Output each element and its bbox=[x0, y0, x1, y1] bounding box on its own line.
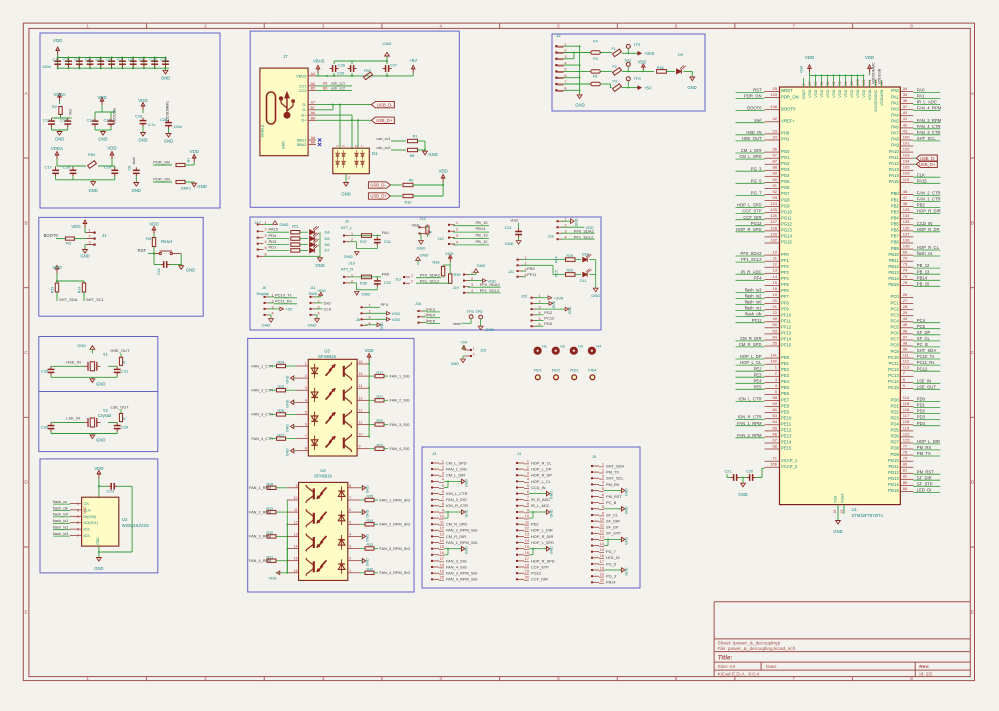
svg-text:PF1_SCL2: PF1_SCL2 bbox=[741, 257, 762, 262]
svg-text:PM_RST: PM_RST bbox=[917, 469, 934, 474]
svg-text:SHT_SDA: SHT_SDA bbox=[59, 297, 78, 302]
svg-text:PC12: PC12 bbox=[544, 316, 555, 321]
svg-text:F1: F1 bbox=[612, 47, 616, 51]
svg-text:PF9: PF9 bbox=[781, 306, 789, 311]
svg-text:DNF1: DNF1 bbox=[181, 186, 192, 191]
svg-text:C20: C20 bbox=[746, 470, 753, 474]
svg-text:LED_DI: LED_DI bbox=[917, 488, 932, 493]
svg-text:PD14: PD14 bbox=[888, 482, 899, 487]
svg-text:LSE_OUT: LSE_OUT bbox=[917, 384, 937, 389]
svg-text:FAN_3_RPM_SIG: FAN_3_RPM_SIG bbox=[446, 571, 478, 576]
svg-text:11: 11 bbox=[600, 524, 604, 528]
svg-text:RST: RST bbox=[753, 88, 762, 93]
svg-text:C29: C29 bbox=[121, 425, 129, 430]
svg-text:C11: C11 bbox=[160, 57, 168, 62]
svg-text:VDD: VDD bbox=[855, 89, 860, 97]
svg-text:C17: C17 bbox=[45, 165, 53, 170]
svg-text:J21: J21 bbox=[508, 270, 514, 274]
svg-text:123: 123 bbox=[903, 437, 910, 442]
svg-text:7: 7 bbox=[602, 499, 604, 503]
svg-text:10: 10 bbox=[294, 496, 298, 500]
svg-text:PG8: PG8 bbox=[781, 197, 790, 202]
svg-text:HOP_L_CL: HOP_L_CL bbox=[531, 479, 552, 484]
svg-text:ION_R_CTR: ION_R_CTR bbox=[738, 415, 762, 420]
svg-text:20: 20 bbox=[600, 579, 604, 583]
svg-text:PF0: PF0 bbox=[781, 252, 789, 257]
svg-text:100: 100 bbox=[903, 134, 910, 139]
svg-text:FAN_3_SIG: FAN_3_SIG bbox=[390, 423, 410, 427]
svg-text:CM_L_DIR: CM_L_DIR bbox=[741, 148, 762, 153]
svg-text:142: 142 bbox=[770, 359, 777, 364]
svg-text:43: 43 bbox=[903, 128, 908, 133]
svg-text:FAN_2_RPM: FAN_2_RPM bbox=[737, 433, 762, 438]
svg-text:HOP_L_SPD: HOP_L_SPD bbox=[531, 540, 554, 545]
svg-text:W25Q16JVSS: W25Q16JVSS bbox=[122, 523, 149, 528]
svg-text:PA15: PA15 bbox=[917, 178, 928, 183]
svg-text:+5V: +5V bbox=[644, 85, 652, 90]
svg-text:PB8: PB8 bbox=[891, 240, 900, 245]
svg-text:16: 16 bbox=[600, 554, 604, 558]
svg-text:R17: R17 bbox=[377, 371, 384, 375]
svg-text:17: 17 bbox=[525, 557, 529, 561]
svg-text:118: 118 bbox=[903, 419, 910, 424]
svg-text:75: 75 bbox=[903, 274, 908, 279]
svg-text:PF7: PF7 bbox=[781, 294, 789, 299]
svg-text:GND: GND bbox=[365, 509, 369, 517]
svg-text:C9: C9 bbox=[139, 57, 145, 62]
svg-text:PF4: PF4 bbox=[754, 275, 762, 280]
svg-text:USB_D-: USB_D- bbox=[377, 102, 393, 107]
svg-text:GND: GND bbox=[428, 152, 437, 157]
svg-text:VDDSDMMC: VDDSDMMC bbox=[871, 62, 875, 84]
svg-text:PC7: PC7 bbox=[891, 337, 900, 342]
svg-text:PA1: PA1 bbox=[891, 94, 899, 99]
svg-text:4: 4 bbox=[271, 311, 273, 315]
svg-text:R38: R38 bbox=[433, 260, 440, 264]
svg-text:A5: A5 bbox=[323, 82, 327, 86]
svg-text:PB10: PB10 bbox=[888, 252, 899, 257]
svg-text:14: 14 bbox=[525, 539, 529, 543]
svg-text:64: 64 bbox=[773, 419, 778, 424]
svg-text:HOP_R_DIR: HOP_R_DIR bbox=[531, 534, 553, 539]
svg-text:50: 50 bbox=[773, 322, 778, 327]
svg-text:DIO: DIO bbox=[324, 300, 331, 305]
svg-text:117: 117 bbox=[903, 413, 910, 418]
svg-text:99: 99 bbox=[903, 347, 908, 352]
svg-text:6: 6 bbox=[305, 423, 307, 427]
svg-text:121: 121 bbox=[862, 79, 866, 85]
svg-text:C16: C16 bbox=[135, 114, 143, 119]
svg-text:15: 15 bbox=[294, 557, 298, 561]
svg-text:B5: B5 bbox=[311, 87, 315, 91]
svg-text:FB1: FB1 bbox=[88, 152, 96, 157]
svg-text:5: 5 bbox=[349, 520, 351, 524]
svg-text:SF_STP: SF_STP bbox=[917, 481, 933, 486]
svg-text:34: 34 bbox=[903, 86, 908, 91]
svg-text:PG_5: PG_5 bbox=[606, 561, 616, 566]
svg-text:PG4: PG4 bbox=[781, 173, 790, 178]
svg-text:CLK: CLK bbox=[917, 172, 925, 177]
svg-text:J20: J20 bbox=[521, 295, 527, 299]
svg-text:PA2: PA2 bbox=[891, 100, 899, 105]
svg-text:C8: C8 bbox=[128, 57, 134, 62]
svg-text:PM_RX: PM_RX bbox=[606, 482, 620, 487]
svg-text:3: 3 bbox=[456, 234, 458, 238]
svg-text:PF1_SCL2: PF1_SCL2 bbox=[574, 234, 594, 239]
svg-text:GND: GND bbox=[89, 188, 98, 193]
svg-text:PC6: PC6 bbox=[891, 331, 900, 336]
svg-text:39: 39 bbox=[820, 81, 824, 85]
svg-text:7: 7 bbox=[361, 145, 365, 147]
svg-text:GND: GND bbox=[383, 41, 392, 46]
svg-text:GND: GND bbox=[282, 141, 286, 149]
svg-text:PF8: PF8 bbox=[781, 300, 789, 305]
svg-text:C13: C13 bbox=[60, 118, 68, 123]
svg-text:15: 15 bbox=[600, 548, 604, 552]
svg-text:11: 11 bbox=[359, 421, 363, 425]
svg-text:C1: C1 bbox=[52, 57, 58, 62]
svg-text:PC12: PC12 bbox=[888, 367, 899, 372]
svg-text:5: 5 bbox=[557, 23, 560, 28]
svg-text:A4: A4 bbox=[311, 72, 315, 76]
svg-text:C6: C6 bbox=[106, 57, 112, 62]
svg-text:U2: U2 bbox=[122, 517, 128, 522]
svg-text:J10: J10 bbox=[349, 261, 356, 266]
svg-text:CLK: CLK bbox=[324, 306, 332, 311]
svg-text:3: 3 bbox=[349, 545, 351, 549]
svg-text:CCF_DIR: CCF_DIR bbox=[743, 215, 761, 220]
svg-text:5: 5 bbox=[602, 487, 604, 491]
svg-text:C10: C10 bbox=[149, 57, 157, 62]
svg-text:GND: GND bbox=[550, 509, 554, 517]
svg-text:USB_D-: USB_D- bbox=[920, 156, 936, 161]
svg-text:1: 1 bbox=[527, 459, 529, 463]
svg-text:HSE_OUT: HSE_OUT bbox=[742, 136, 762, 141]
svg-text:VDD: VDD bbox=[138, 98, 147, 103]
svg-text:FAN_1_RPM_SIG: FAN_1_RPM_SIG bbox=[446, 540, 478, 545]
svg-text:HSE_OUT: HSE_OUT bbox=[111, 348, 130, 353]
svg-text:GND: GND bbox=[625, 567, 629, 575]
svg-text:PA15: PA15 bbox=[269, 226, 279, 231]
svg-text:Vref: Vref bbox=[754, 118, 762, 123]
svg-text:16: 16 bbox=[440, 551, 444, 555]
svg-text:PD10: PD10 bbox=[888, 458, 899, 463]
svg-text:GND: GND bbox=[164, 139, 173, 144]
svg-text:PB13: PB13 bbox=[888, 270, 899, 275]
svg-text:52: 52 bbox=[826, 81, 830, 85]
svg-text:VDD: VDD bbox=[190, 149, 199, 154]
svg-text:40: 40 bbox=[903, 110, 908, 115]
svg-text:PC9: PC9 bbox=[891, 349, 900, 354]
svg-text:VDD: VDD bbox=[861, 89, 866, 97]
svg-text:106: 106 bbox=[770, 462, 777, 467]
svg-text:VDDA: VDDA bbox=[51, 146, 63, 151]
svg-text:PA9: PA9 bbox=[891, 143, 899, 148]
svg-text:B8: B8 bbox=[311, 141, 315, 145]
svg-text:2: 2 bbox=[473, 352, 475, 356]
svg-text:F3: F3 bbox=[613, 80, 617, 84]
svg-text:PG6: PG6 bbox=[781, 185, 790, 190]
svg-text:8: 8 bbox=[442, 502, 444, 506]
svg-text:GND: GND bbox=[568, 306, 572, 314]
svg-text:ION_L_CTR: ION_L_CTR bbox=[446, 491, 468, 496]
svg-text:PD6: PD6 bbox=[891, 434, 900, 439]
svg-text:6: 6 bbox=[675, 676, 678, 681]
svg-text:PA7: PA7 bbox=[891, 131, 899, 136]
svg-text:C25: C25 bbox=[337, 72, 344, 76]
svg-text:+bat: +bat bbox=[799, 66, 803, 73]
svg-text:PF1_SCL2: PF1_SCL2 bbox=[420, 278, 440, 283]
svg-text:VREF+: VREF+ bbox=[781, 119, 795, 124]
svg-text:14: 14 bbox=[294, 545, 298, 549]
svg-text:17: 17 bbox=[808, 81, 812, 85]
svg-text:2: 2 bbox=[411, 280, 413, 284]
svg-text:PB_15: PB_15 bbox=[917, 281, 930, 286]
svg-text:PD3: PD3 bbox=[917, 415, 926, 420]
svg-text:16: 16 bbox=[294, 569, 298, 573]
svg-text:PF11: PF11 bbox=[781, 319, 791, 324]
svg-text:USB_D+: USB_D+ bbox=[919, 162, 936, 167]
svg-text:PM_RST: PM_RST bbox=[606, 494, 622, 499]
svg-text:9: 9 bbox=[602, 511, 604, 515]
svg-text:D7: D7 bbox=[325, 248, 331, 253]
svg-text:PC12: PC12 bbox=[917, 366, 928, 371]
svg-text:SHT_SCL: SHT_SCL bbox=[917, 136, 937, 141]
svg-text:PA1: PA1 bbox=[382, 230, 390, 235]
svg-text:54: 54 bbox=[773, 334, 778, 339]
svg-text:PF1: PF1 bbox=[781, 258, 789, 263]
svg-text:GND: GND bbox=[161, 76, 170, 81]
svg-text:VDD: VDD bbox=[805, 55, 814, 60]
svg-text:HOP_R_DIR: HOP_R_DIR bbox=[917, 209, 941, 214]
svg-text:GND: GND bbox=[625, 537, 629, 545]
svg-text:PE9: PE9 bbox=[781, 409, 790, 414]
svg-text:SF_CL: SF_CL bbox=[606, 512, 619, 517]
svg-text:12: 12 bbox=[600, 530, 604, 534]
svg-text:PD0: PD0 bbox=[544, 321, 553, 326]
svg-text:GND: GND bbox=[341, 192, 350, 197]
svg-text:GND: GND bbox=[552, 300, 556, 308]
svg-text:PA0: PA0 bbox=[382, 271, 390, 276]
svg-text:86: 86 bbox=[903, 486, 908, 491]
svg-text:82: 82 bbox=[903, 474, 908, 479]
svg-text:VCAP_1: VCAP_1 bbox=[781, 458, 798, 463]
svg-text:FAN_3_CTR: FAN_3_CTR bbox=[917, 130, 941, 135]
svg-text:R31: R31 bbox=[267, 555, 274, 559]
svg-text:LED_DI: LED_DI bbox=[606, 555, 620, 560]
svg-text:1: 1 bbox=[77, 502, 79, 506]
svg-text:PA14: PA14 bbox=[889, 173, 900, 178]
svg-text:flash_clk: flash_clk bbox=[53, 506, 68, 510]
svg-text:126: 126 bbox=[770, 213, 777, 218]
svg-text:C24: C24 bbox=[505, 226, 512, 230]
svg-text:19: 19 bbox=[600, 573, 604, 577]
svg-text:SHT_SDA: SHT_SDA bbox=[917, 348, 937, 353]
svg-text:PE2: PE2 bbox=[754, 366, 763, 371]
svg-text:12: 12 bbox=[440, 527, 444, 531]
svg-text:SFH6916: SFH6916 bbox=[318, 354, 336, 359]
svg-text:81: 81 bbox=[903, 468, 908, 473]
svg-text:PD4: PD4 bbox=[269, 233, 278, 238]
svg-text:PA12: PA12 bbox=[889, 161, 900, 166]
svg-text:C32: C32 bbox=[41, 368, 49, 373]
svg-text:28: 28 bbox=[903, 304, 908, 309]
svg-text:GND: GND bbox=[286, 399, 290, 407]
svg-text:R18: R18 bbox=[657, 66, 664, 70]
svg-text:5: 5 bbox=[305, 410, 307, 414]
svg-text:PC2: PC2 bbox=[891, 306, 900, 311]
svg-text:GND: GND bbox=[55, 137, 64, 142]
svg-text:124: 124 bbox=[770, 201, 777, 206]
svg-text:2: 2 bbox=[88, 234, 90, 238]
svg-text:141: 141 bbox=[770, 353, 777, 358]
svg-text:Y1: Y1 bbox=[103, 352, 109, 357]
svg-text:PF3: PF3 bbox=[781, 270, 789, 275]
svg-text:VDDA: VDDA bbox=[867, 89, 872, 100]
svg-text:IR_L_ADC: IR_L_ADC bbox=[917, 100, 937, 105]
svg-text:PA3: PA3 bbox=[891, 106, 899, 111]
svg-text:13: 13 bbox=[600, 536, 604, 540]
svg-text:VDD: VDD bbox=[813, 89, 818, 97]
svg-text:PDR_ON: PDR_ON bbox=[781, 94, 799, 99]
svg-text:HOP_L_CL: HOP_L_CL bbox=[740, 360, 762, 365]
svg-text:HOP_L_DIR: HOP_L_DIR bbox=[531, 528, 553, 533]
svg-text:133: 133 bbox=[903, 207, 910, 212]
svg-text:GND: GND bbox=[96, 537, 100, 545]
svg-text:10: 10 bbox=[525, 514, 529, 518]
svg-text:PE12: PE12 bbox=[781, 428, 792, 433]
svg-text:D9: D9 bbox=[678, 52, 684, 57]
svg-text:A8: A8 bbox=[311, 136, 315, 140]
svg-text:PE4: PE4 bbox=[781, 379, 790, 384]
svg-text:CCF_STP: CCF_STP bbox=[531, 564, 549, 569]
svg-text:PF0_SDA2: PF0_SDA2 bbox=[420, 272, 441, 277]
svg-text:49: 49 bbox=[773, 316, 778, 321]
svg-text:SF_DP: SF_DP bbox=[606, 525, 619, 530]
svg-text:VDDA: VDDA bbox=[53, 92, 65, 97]
svg-text:26: 26 bbox=[903, 292, 908, 297]
svg-text:PA5: PA5 bbox=[891, 119, 899, 124]
svg-text:11: 11 bbox=[525, 521, 529, 525]
svg-text:PA4: PA4 bbox=[891, 112, 899, 117]
svg-text:PF12: PF12 bbox=[781, 325, 792, 330]
svg-text:R3: R3 bbox=[66, 241, 72, 246]
svg-text:H1: H1 bbox=[542, 345, 547, 349]
svg-text:PA0: PA0 bbox=[891, 88, 899, 93]
svg-text:Date:: Date: bbox=[766, 664, 777, 670]
svg-text:flash_io3: flash_io3 bbox=[745, 288, 762, 293]
svg-text:41: 41 bbox=[903, 116, 908, 121]
svg-text:2: 2 bbox=[442, 465, 444, 469]
svg-text:GND: GND bbox=[344, 254, 353, 259]
svg-text:CM_L_SPD: CM_L_SPD bbox=[739, 154, 761, 159]
svg-text:GND: GND bbox=[550, 491, 554, 499]
svg-text:72: 72 bbox=[838, 81, 842, 85]
svg-text:GND: GND bbox=[365, 534, 369, 542]
svg-text:PG9: PG9 bbox=[781, 203, 790, 208]
svg-text:70: 70 bbox=[903, 256, 908, 261]
svg-text:88: 88 bbox=[773, 165, 778, 170]
svg-text:78: 78 bbox=[903, 450, 908, 455]
svg-text:11: 11 bbox=[440, 521, 444, 525]
svg-text:PD9: PD9 bbox=[891, 452, 900, 457]
svg-text:1: 1 bbox=[305, 362, 307, 366]
svg-text:PF10: PF10 bbox=[781, 312, 792, 317]
svg-text:HOP_R_CL: HOP_R_CL bbox=[917, 245, 940, 250]
svg-text:IO2: IO2 bbox=[84, 528, 90, 532]
svg-text:7: 7 bbox=[793, 676, 796, 681]
svg-text:GND: GND bbox=[485, 327, 494, 332]
svg-text:Crystal: Crystal bbox=[98, 413, 111, 418]
svg-text:R35: R35 bbox=[367, 495, 374, 499]
svg-text:136: 136 bbox=[903, 225, 910, 230]
svg-text:PM_TX: PM_TX bbox=[606, 470, 619, 475]
svg-text:J19: J19 bbox=[453, 286, 459, 290]
svg-text:CM_R_DIR: CM_R_DIR bbox=[740, 336, 761, 341]
svg-text:flash_io3: flash_io3 bbox=[53, 532, 68, 536]
svg-text:flash_cs: flash_cs bbox=[917, 251, 932, 256]
svg-text:48: 48 bbox=[903, 201, 908, 206]
svg-text:PB14: PB14 bbox=[476, 226, 487, 231]
svg-text:TP1: TP1 bbox=[634, 42, 641, 47]
svg-text:25: 25 bbox=[773, 86, 778, 91]
svg-text:10: 10 bbox=[600, 517, 604, 521]
svg-text:13: 13 bbox=[525, 533, 529, 537]
svg-text:VDD: VDD bbox=[837, 89, 842, 97]
svg-text:C19: C19 bbox=[104, 165, 112, 170]
svg-text:GND: GND bbox=[365, 485, 369, 493]
svg-text:FAN_1_RPM: FAN_1_RPM bbox=[737, 421, 762, 426]
svg-text:B6: B6 bbox=[311, 116, 315, 120]
svg-text:Reset: Reset bbox=[161, 239, 173, 244]
svg-text:143: 143 bbox=[770, 92, 777, 97]
svg-text:HOP_R_SPD: HOP_R_SPD bbox=[531, 558, 555, 563]
svg-text:PF6: PF6 bbox=[781, 288, 789, 293]
svg-text:19: 19 bbox=[525, 570, 529, 574]
svg-text:108: 108 bbox=[856, 79, 860, 85]
svg-text:PG12: PG12 bbox=[751, 221, 762, 226]
svg-text:PC1: PC1 bbox=[891, 300, 900, 305]
svg-text:2: 2 bbox=[305, 374, 307, 378]
svg-text:VDD: VDD bbox=[318, 288, 327, 293]
svg-text:PE0: PE0 bbox=[781, 355, 790, 360]
svg-text:flash_io1: flash_io1 bbox=[53, 519, 68, 523]
svg-text:GND: GND bbox=[80, 254, 89, 259]
svg-text:GND: GND bbox=[286, 448, 290, 456]
svg-text:CM_R_SPD: CM_R_SPD bbox=[739, 342, 762, 347]
svg-text:5: 5 bbox=[527, 484, 529, 488]
svg-text:CCF_DIR: CCF_DIR bbox=[531, 577, 548, 582]
svg-text:16: 16 bbox=[833, 510, 837, 514]
svg-text:PF0_SDA2: PF0_SDA2 bbox=[741, 251, 763, 256]
svg-text:4: 4 bbox=[305, 398, 307, 402]
svg-text:ATT_R: ATT_R bbox=[341, 267, 353, 272]
svg-text:63: 63 bbox=[773, 413, 778, 418]
svg-text:VDD: VDD bbox=[52, 265, 61, 270]
svg-text:VDD: VDD bbox=[268, 577, 276, 581]
svg-text:R27: R27 bbox=[278, 433, 285, 437]
svg-text:PF2: PF2 bbox=[781, 264, 789, 269]
svg-text:PC4: PC4 bbox=[917, 318, 926, 323]
svg-text:4: 4 bbox=[264, 240, 266, 244]
svg-text:GND: GND bbox=[505, 241, 514, 246]
svg-text:100n: 100n bbox=[42, 64, 51, 69]
svg-text:CS: CS bbox=[84, 502, 90, 506]
svg-text:GND: GND bbox=[96, 381, 105, 386]
svg-text:PC5: PC5 bbox=[917, 324, 926, 329]
svg-text:PC_B: PC_B bbox=[917, 342, 928, 347]
svg-text:18: 18 bbox=[440, 563, 444, 567]
